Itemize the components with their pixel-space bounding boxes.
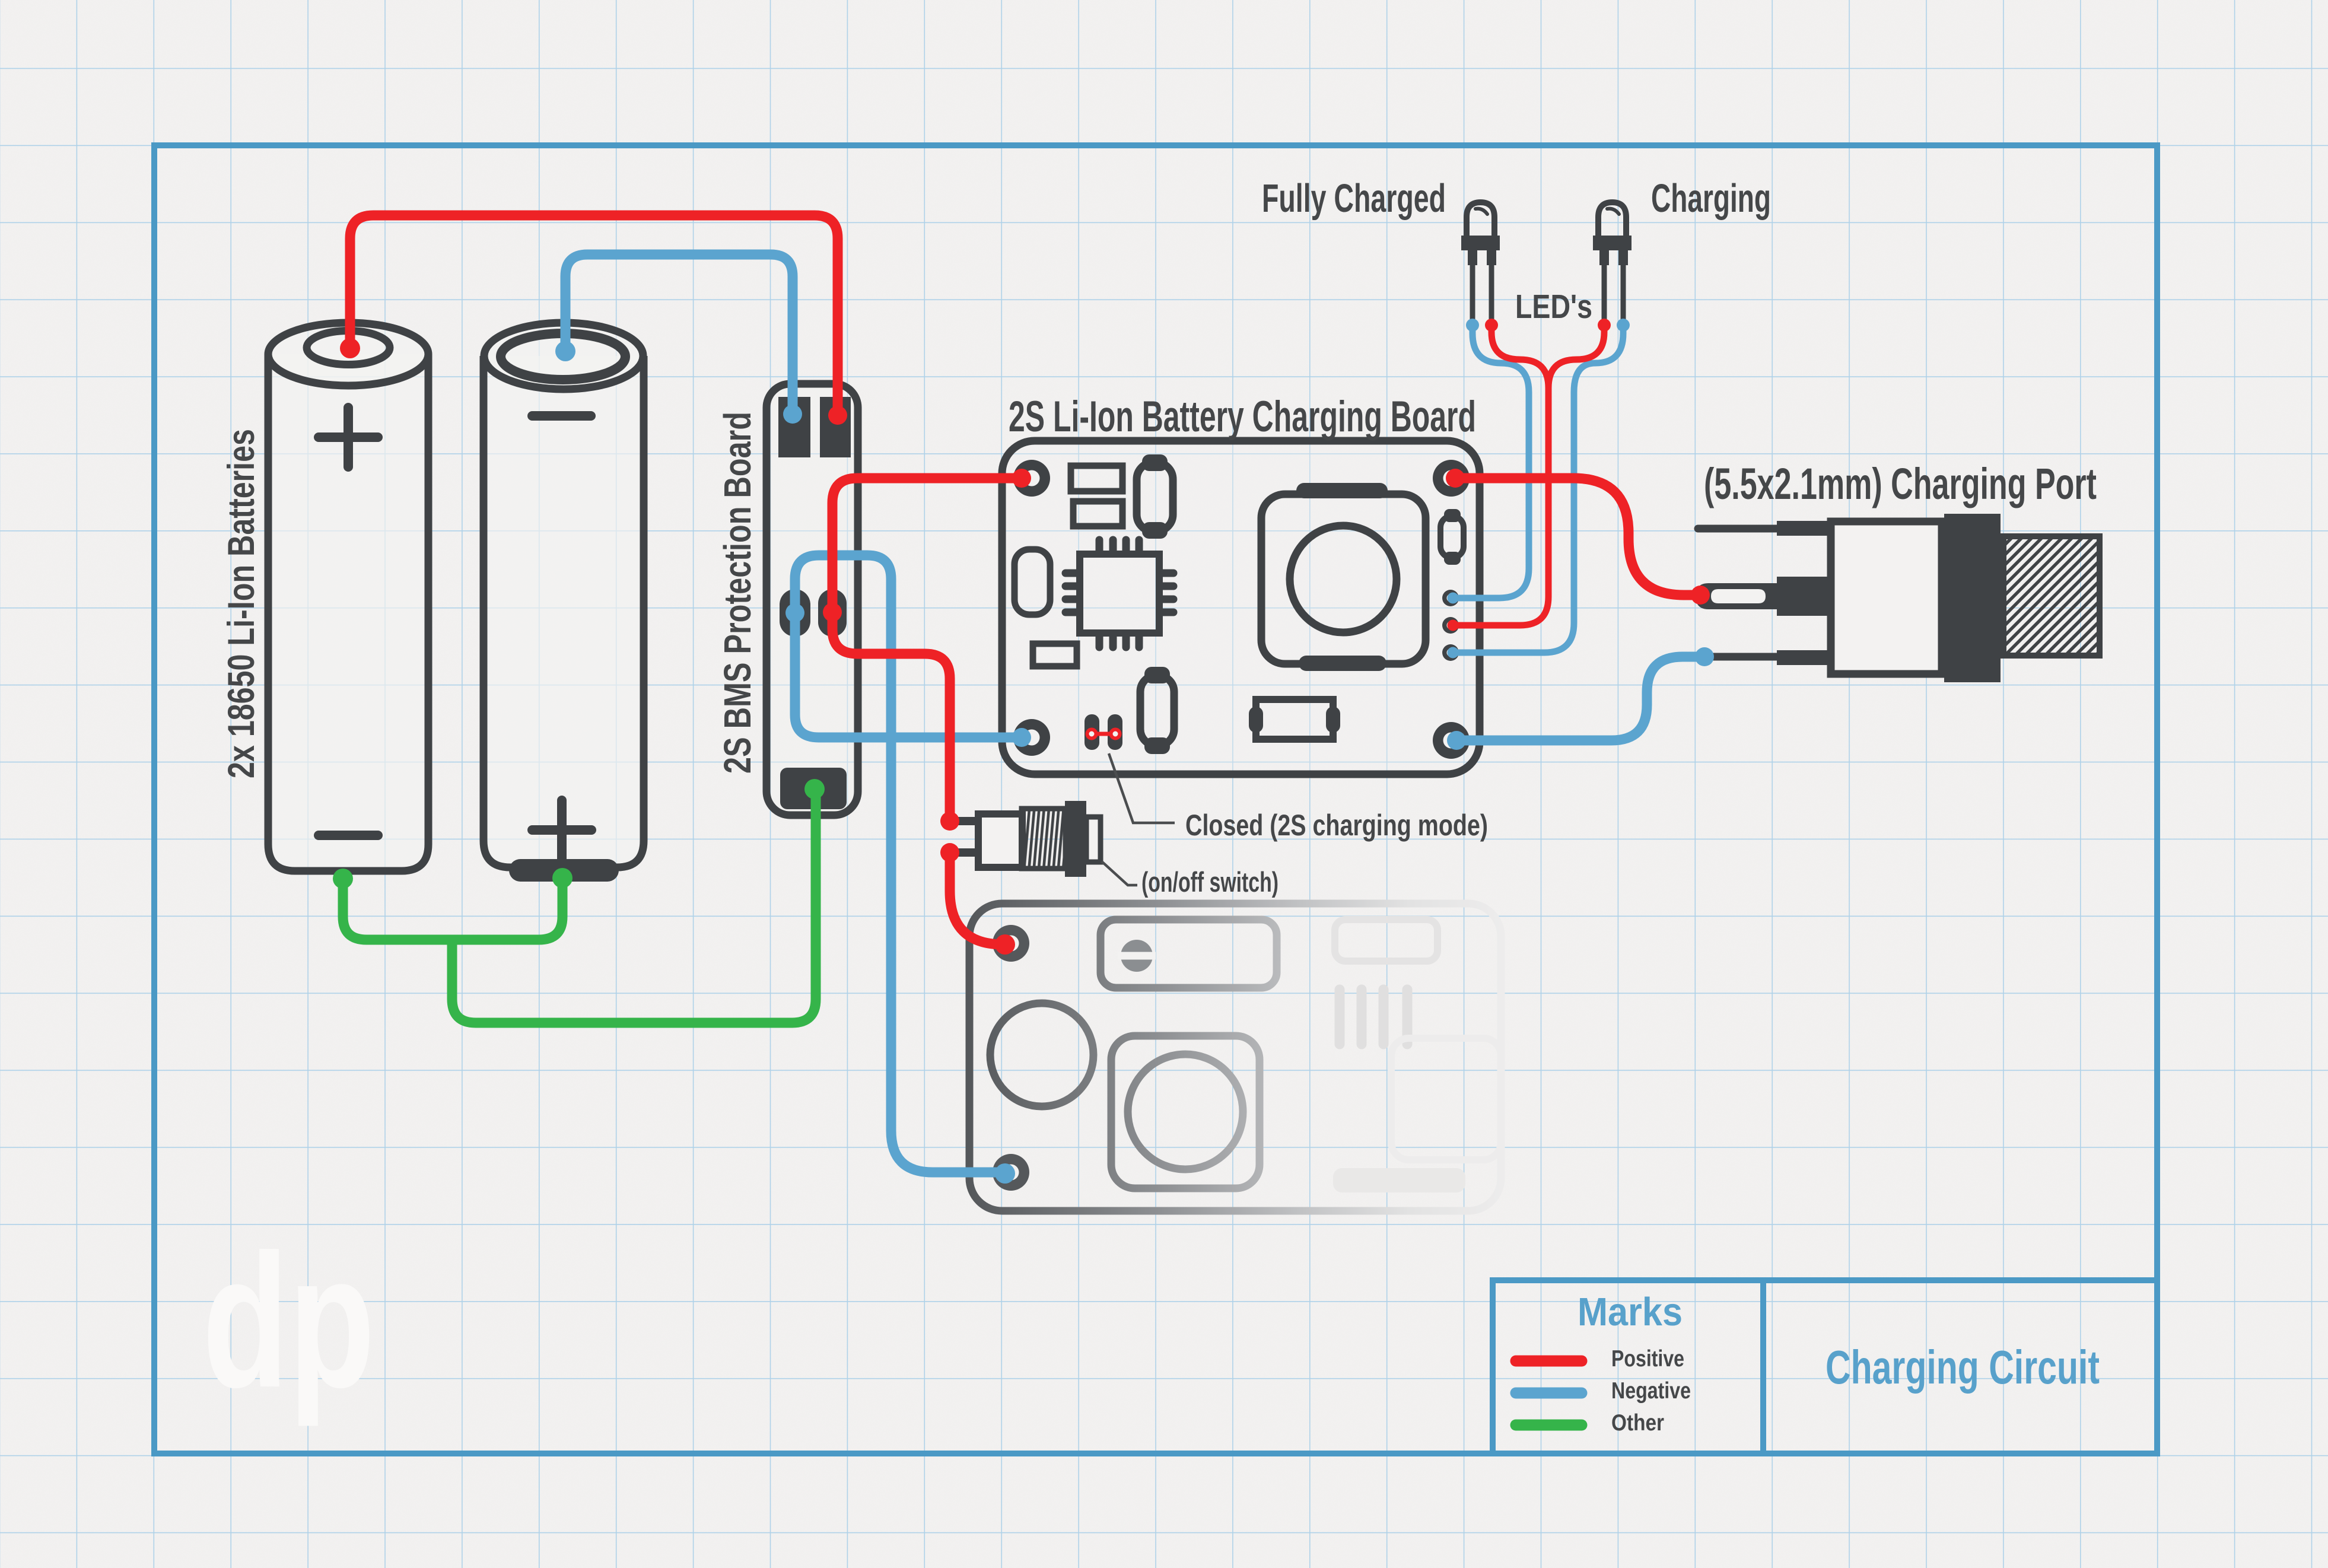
resistor R3 (1033, 644, 1077, 666)
charging board outline (1002, 441, 1480, 774)
node battery2 bottom (552, 868, 573, 888)
LED D1 (Fully Charged) (1461, 202, 1500, 319)
battery B2 plus mark (532, 800, 591, 860)
wire red charging board OUT+ to port (1455, 478, 1700, 595)
wire blue BMS P- to ghost board (795, 555, 1005, 1172)
svg-text:Marks: Marks (1578, 1290, 1683, 1334)
IC U1 pins (1066, 540, 1173, 647)
battery B2 bottom cap (509, 859, 619, 882)
wire red battery1 to BMS B+ (350, 215, 838, 415)
battery B2 (right 18650, minus up) (484, 323, 644, 867)
node LED2 cathode (1617, 319, 1630, 332)
switch SW1 (955, 801, 1101, 877)
battery B1 (left 18650, plus up) (268, 323, 428, 871)
charging board hole top-left (1013, 460, 1050, 497)
capacitor C1 (1137, 454, 1173, 539)
ghost battery icon (1335, 920, 1437, 961)
node BMS P- (785, 603, 804, 622)
battery B2 minus mark (532, 411, 591, 421)
callout line jumper closed (1109, 753, 1175, 823)
wire red LED1 anode (1453, 325, 1548, 625)
node LED pad1 (1448, 593, 1459, 604)
LED pad ring 2 (1442, 617, 1459, 634)
charging board hole top-right (1433, 460, 1470, 497)
node charging board OUT- (1447, 731, 1466, 750)
resistor R1 (1071, 466, 1122, 491)
battery B1 minus mark (319, 831, 378, 840)
node port sleeve (1695, 647, 1714, 666)
node port tip (1691, 586, 1710, 605)
svg-text:2S Li-Ion Battery Charging Boa: 2S Li-Ion Battery Charging Board (1009, 393, 1476, 441)
svg-text:Negative: Negative (1611, 1378, 1691, 1404)
svg-text:(5.5x2.1mm) Charging Port: (5.5x2.1mm) Charging Port (1704, 459, 2097, 508)
node ghost board V+ (995, 934, 1015, 955)
diode D3 (1014, 549, 1050, 615)
ghost board pad top-left (993, 925, 1029, 962)
node switch pin1 (940, 812, 959, 831)
node charging board B- (1012, 728, 1031, 747)
ghost board screw terminal (990, 920, 1277, 1188)
wire green battery link (343, 879, 562, 940)
node BMS B- (783, 405, 802, 424)
BMS pad P+ middle right (818, 589, 847, 637)
drawing frame border (154, 145, 2157, 1453)
node LED pad2 (1448, 620, 1459, 631)
ghost pin header (1340, 990, 1407, 1044)
svg-text:dp: dp (202, 1214, 375, 1428)
svg-text:Other: Other (1611, 1410, 1664, 1436)
BMS protection board outline (767, 384, 858, 815)
svg-text:Charging Circuit: Charging Circuit (1825, 1341, 2100, 1394)
BMS pad BM bottom (780, 768, 847, 809)
wire blue LED1 cathode to pad1 (1453, 325, 1529, 598)
battery B1 plus mark (319, 408, 378, 467)
ghost board (faded PCB) outline (969, 904, 1501, 1211)
legend negative swatch (1516, 1388, 1582, 1399)
svg-text:2x 18650 Li-Ion Batteries: 2x 18650 Li-Ion Batteries (221, 429, 262, 778)
node battery1 bottom (333, 869, 353, 889)
LED pad ring 1 (1442, 590, 1459, 606)
ghost module right (1391, 1038, 1501, 1160)
ghost bottom pad bar (1333, 1168, 1465, 1192)
charging board hole bottom-left (1013, 719, 1050, 756)
wire blue charging board OUT- to port (1456, 657, 1704, 740)
legend positive swatch (1516, 1356, 1582, 1367)
svg-text:Fully Charged: Fully Charged (1262, 176, 1446, 221)
svg-text:LED's: LED's (1515, 288, 1592, 326)
node battery2 minus (555, 341, 575, 361)
capacitor C3 top right (1440, 509, 1464, 565)
node LED pad3 (1448, 647, 1459, 659)
wire blue BMS P- to charging board B- (795, 613, 1022, 737)
node LED1 cathode (1466, 319, 1479, 332)
LED D2 (Charging) (1593, 202, 1631, 319)
wire red charging board B+ to BMS P+ to switch (832, 478, 1022, 821)
LED pad ring 3 (1442, 644, 1459, 661)
inductor L1 (1261, 483, 1426, 671)
node LED1 anode (1485, 319, 1498, 332)
jumper JP1 closed link (1087, 730, 1120, 739)
node battery1 plus (340, 338, 360, 358)
svg-text:(on/off switch): (on/off switch) (1141, 866, 1279, 898)
BMS pad B- top left (778, 397, 810, 457)
node ghost board V- (995, 1163, 1015, 1184)
jumper JP1 pads (1085, 714, 1122, 750)
ghost board pad bottom-left (993, 1154, 1029, 1191)
svg-text:Closed (2S charging mode): Closed (2S charging mode) (1185, 809, 1488, 842)
legend other swatch (1516, 1420, 1582, 1431)
node LED2 anode (1598, 319, 1611, 332)
BMS pad P- middle left (780, 589, 810, 637)
resistor R2 (1073, 501, 1122, 526)
svg-text:Charging: Charging (1651, 176, 1771, 221)
node charging board OUT+ (1446, 469, 1465, 488)
node BMS BM green (804, 779, 825, 799)
title block (1493, 1280, 2157, 1453)
ghost screw head (1118, 940, 1156, 972)
node BMS P+ (823, 603, 842, 622)
svg-text:Positive: Positive (1611, 1346, 1684, 1372)
capacitor C2 (1140, 667, 1174, 754)
node switch pin2 (940, 843, 959, 862)
wire green to BMS BM pad (452, 795, 816, 1023)
IC U1 body (1080, 554, 1159, 633)
charging board hole bottom-right (1433, 722, 1470, 759)
BMS pad B+ top right (820, 397, 851, 457)
svg-text:2S BMS Protection Board: 2S BMS Protection Board (716, 412, 759, 774)
callout line on-off switch (1102, 861, 1137, 885)
node BMS B+ (828, 406, 847, 425)
wire red LED2 anode (1548, 325, 1604, 388)
wire blue LED2 cathode to pad3 (1453, 325, 1623, 653)
wire blue battery2 to BMS B- (565, 255, 793, 414)
node charging board B+ (1012, 469, 1031, 488)
charging port J1 (1696, 514, 2100, 682)
wire red switch to ghost board (950, 853, 1005, 944)
capacitor C4 bottom (1249, 699, 1340, 739)
